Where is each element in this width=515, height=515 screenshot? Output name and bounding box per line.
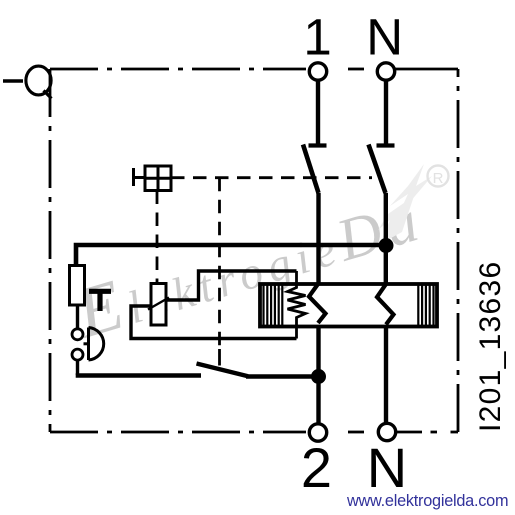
wire: coil left terminal to CT secondary lower (131, 306, 297, 339)
current transformer core body (260, 284, 437, 327)
svg-text:2: 2 (301, 436, 332, 499)
trip relay coil K (permanent magnet release) (148, 284, 169, 326)
watermark registered mark (428, 166, 449, 188)
pole 1 primary winding kink in CT (309, 284, 326, 323)
wire: pole 1 CT to terminal 2 (316, 327, 320, 425)
test pushbutton contact circle upper (72, 329, 83, 340)
mechanical linkage: test button to switch blades (dashed) (171, 176, 372, 179)
test pushbutton contact circle lower (72, 349, 83, 360)
terminal N bottom circle (378, 423, 395, 440)
wire: pole N CT to terminal N (384, 327, 388, 424)
wire: coil right terminal to CT secondary upper (166, 271, 297, 300)
wire: pole 1 from terminal to switch (316, 81, 320, 146)
current transformer core hatching right (418, 284, 433, 327)
resistor R (test) (70, 266, 85, 306)
mechanical linkage solid end at trip contact (218, 349, 221, 366)
switch pole N fixed contact tick (377, 143, 395, 147)
wire: test circuit bottom left segment (76, 373, 201, 378)
wire: test contact down to bottom wire (76, 360, 79, 376)
svg-text:1: 1 (303, 9, 331, 66)
watermark ElektrogieDa (66, 164, 432, 354)
terminal 1 circle (309, 63, 326, 80)
wire: pole N switch to CT (384, 193, 388, 284)
mechanical linkage: to trip contact (dashed) (218, 178, 221, 352)
current transformer secondary winding (288, 271, 306, 339)
mechanical linkage: test button to trip coil (dashed) (156, 191, 159, 284)
pole N primary winding kink in CT (377, 284, 394, 325)
node: junction pole N / test circuit (379, 238, 394, 253)
device designator -Q (3, 66, 52, 98)
trip contact blade (197, 364, 249, 377)
enclosure dash-dot border (50, 69, 458, 432)
wire: pole 1 switch to CT (316, 193, 320, 284)
svg-text:www.elektrogielda.com: www.elektrogielda.com (346, 492, 508, 510)
wire: pole N from terminal to switch (384, 81, 388, 146)
switch pole N blade (369, 145, 386, 194)
test pushbutton actuator (84, 328, 104, 361)
svg-text:I201_13636: I201_13636 (474, 261, 507, 433)
wire: resistor to test contact (76, 305, 79, 328)
switch pole 1 blade (303, 145, 319, 194)
terminal 2 circle (309, 424, 326, 441)
svg-text:N: N (366, 9, 403, 66)
wire: test circuit top (N junction to resistor branch) (76, 245, 386, 266)
test button S (square with cross) (134, 166, 172, 191)
wire: trip contact to pole 1 junction (246, 374, 319, 379)
switch pole 1 fixed contact tick (309, 143, 327, 147)
current transformer core hatching left (264, 284, 283, 327)
node: junction pole 1 / test circuit (311, 369, 326, 384)
terminal N top circle (377, 63, 394, 80)
label T (89, 291, 111, 311)
svg-text:R: R (433, 170, 444, 187)
svg-text:N: N (367, 436, 407, 499)
